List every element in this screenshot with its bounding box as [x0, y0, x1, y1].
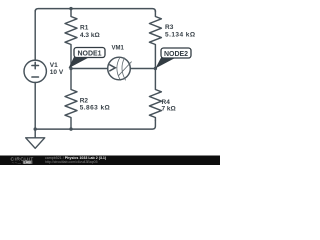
- svg-text:4.3 kΩ: 4.3 kΩ: [80, 32, 100, 39]
- svg-text:http://circuitlab.com/c6vu43Ba: http://circuitlab.com/c6vu43Bap05: [45, 160, 98, 164]
- svg-text:10 V: 10 V: [50, 69, 64, 76]
- svg-text:NODE1: NODE1: [77, 50, 101, 57]
- svg-text:R1: R1: [80, 25, 89, 32]
- svg-text:V1: V1: [50, 62, 58, 69]
- svg-text:5.134 kΩ: 5.134 kΩ: [165, 31, 196, 38]
- svg-text:R2: R2: [80, 98, 89, 105]
- svg-text:∼∼—: ∼∼—: [12, 161, 22, 165]
- svg-text:VM1: VM1: [112, 46, 125, 52]
- svg-text:NODE2: NODE2: [164, 51, 188, 58]
- svg-text:5.863 kΩ: 5.863 kΩ: [80, 105, 111, 112]
- svg-text:R3: R3: [165, 24, 174, 31]
- svg-text:7 kΩ: 7 kΩ: [162, 105, 176, 112]
- svg-text:LAB: LAB: [24, 161, 32, 165]
